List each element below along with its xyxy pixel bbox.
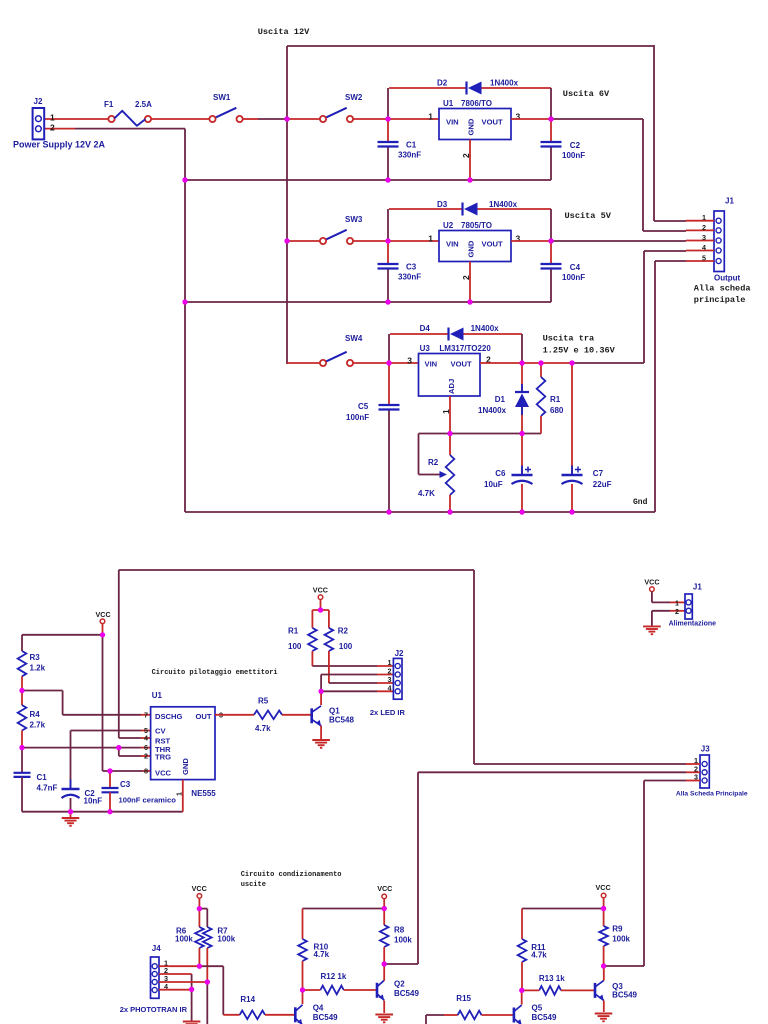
svg-text:R1: R1	[550, 395, 561, 404]
wire: R9 node to J3 riser	[604, 965, 644, 967]
junction dot VCC J4	[197, 906, 202, 911]
junction dot THR/TRG	[116, 745, 121, 750]
wire: R8 node to J3 riser	[384, 963, 418, 965]
resistor R11 4.7k	[521, 909, 523, 940]
svg-text:Uscita 12V: Uscita 12V	[258, 27, 310, 37]
svg-text:F1: F1	[104, 100, 114, 109]
wire: C1 to rail	[21, 777, 23, 812]
wire: RST drop	[118, 570, 120, 738]
svg-text:2: 2	[675, 607, 679, 616]
svg-text:4: 4	[702, 243, 706, 252]
junction dot R6 pin1	[197, 964, 202, 969]
svg-text:J1: J1	[693, 583, 702, 592]
svg-text:1N400x: 1N400x	[471, 324, 500, 333]
wire: OUT to R5	[215, 714, 254, 716]
wire: J4 pin3 row	[159, 981, 207, 983]
wire: TRG tie	[118, 748, 120, 756]
wire: 12V line down to J1 pin1	[653, 45, 655, 221]
wire: D2 loop	[387, 88, 389, 119]
resistor R1 100	[308, 628, 317, 651]
wire: U3 ADJ wire	[449, 396, 451, 434]
svg-text:VCC: VCC	[96, 610, 111, 619]
svg-text:100nF: 100nF	[562, 151, 585, 160]
junction dot SW4/D4 node	[386, 360, 391, 365]
connector J1 Output	[714, 211, 724, 272]
wire: Uscita 5V net to J1 pin3	[551, 240, 686, 242]
svg-text:2: 2	[461, 153, 471, 158]
wire: U2 pin2 GND wire	[469, 262, 471, 303]
resistor R6 100k	[198, 909, 200, 927]
svg-text:R2: R2	[338, 627, 349, 636]
svg-text:2x LED IR: 2x LED IR	[370, 708, 406, 717]
ground symbol Q1	[312, 739, 330, 741]
svg-text:22uF: 22uF	[593, 480, 612, 489]
regulator U3 LM317/TO220	[419, 354, 481, 397]
svg-text:1N400x: 1N400x	[490, 79, 519, 88]
svg-text:C1: C1	[406, 141, 417, 150]
svg-text:3: 3	[694, 773, 698, 782]
connector J4 2x PHOTOTRAN IR	[151, 957, 160, 998]
wire: VCC tee to R1 R2	[312, 609, 329, 611]
svg-text:VCC: VCC	[377, 884, 392, 893]
resistor R13 1k	[539, 986, 561, 995]
wire: SW4 to U3 VIN	[353, 362, 419, 364]
junction dot Q4 collector node	[300, 987, 305, 992]
svg-text:1: 1	[50, 112, 55, 122]
wire: D3 loop	[387, 209, 389, 241]
transistor Q4 BC549	[294, 1007, 297, 1022]
svg-text:R2: R2	[428, 458, 439, 467]
diode D4 1N400x	[447, 328, 449, 341]
junction dots U2 rail	[182, 299, 187, 304]
wire: R2 to J2 pin3	[328, 651, 330, 683]
fuse F1	[108, 116, 114, 122]
junction dot R9 bottom	[601, 963, 606, 968]
svg-text:7: 7	[144, 710, 148, 719]
junction dot R7 pin3	[205, 979, 210, 984]
ground symbol Q3	[595, 1013, 613, 1015]
wire: R15 feed	[425, 1015, 427, 1024]
wire: collector node down to Q1	[320, 691, 322, 705]
svg-text:SW3: SW3	[345, 215, 363, 224]
wire: U2 block ground rail	[185, 301, 551, 303]
wire: RST net long top line	[119, 569, 474, 571]
capacitor C6 10uF	[521, 434, 523, 475]
svg-text:1: 1	[428, 111, 433, 121]
wire: VCC to J1b pin1	[651, 592, 653, 603]
svg-text:4.7nF: 4.7nF	[37, 784, 58, 793]
svg-text:J2: J2	[34, 97, 43, 106]
svg-text:Circuito condizionamento: Circuito condizionamento	[241, 871, 342, 879]
wire: D4 loop	[388, 334, 390, 363]
svg-text:2: 2	[702, 223, 706, 232]
diode D3 1N400x	[461, 203, 463, 216]
svg-text:uscite: uscite	[241, 881, 266, 889]
svg-text:ADJ: ADJ	[447, 379, 456, 394]
wire: J2 pin4 to collector node	[377, 690, 393, 692]
svg-text:2x PHOTOTRAN IR: 2x PHOTOTRAN IR	[120, 1005, 188, 1014]
resistor R12 1k	[320, 986, 343, 995]
wire: SW1 to SW2 segment	[243, 118, 259, 120]
svg-text:R12 1k: R12 1k	[321, 972, 347, 981]
wire: SW4 feed from bus	[287, 362, 320, 364]
transistor Q2 BC549	[376, 983, 379, 998]
wire: R5 to Q1 base	[282, 714, 312, 716]
svg-text:VCC: VCC	[644, 577, 659, 586]
wire: VCC down to pin 8	[102, 635, 104, 771]
svg-text:R4: R4	[30, 710, 41, 719]
svg-text:C4: C4	[570, 263, 581, 272]
capacitor C1 330nF	[387, 119, 389, 142]
svg-text:R1: R1	[288, 627, 299, 636]
svg-text:J4: J4	[152, 944, 161, 953]
junction dots U3 VOUT row	[519, 360, 524, 365]
svg-text:100k: 100k	[217, 935, 235, 944]
wire: SW3 to U2 VIN	[353, 240, 439, 242]
wire: J2 pin2 to collector node	[377, 674, 393, 676]
svg-text:BC549: BC549	[612, 991, 637, 1000]
svg-text:Uscita tra: Uscita tra	[543, 334, 595, 344]
regulator U2 7805/TO	[439, 231, 511, 262]
svg-text:C1: C1	[37, 773, 48, 782]
transistor Q3 BC549	[594, 983, 597, 998]
wire: Q4 collector	[302, 990, 304, 1004]
svg-text:R3: R3	[30, 653, 41, 662]
svg-text:SW1: SW1	[213, 93, 231, 102]
connector J3 Alla Scheda Principale	[700, 755, 709, 788]
svg-text:C7: C7	[593, 469, 604, 478]
diode D1 1N400x	[521, 363, 523, 392]
svg-text:BC549: BC549	[313, 1013, 338, 1022]
svg-text:SW4: SW4	[345, 334, 363, 343]
svg-text:U2: U2	[443, 221, 454, 230]
svg-text:C3: C3	[120, 780, 131, 789]
svg-text:BC549: BC549	[532, 1013, 557, 1022]
junction dot Q5 collector node	[519, 988, 524, 993]
wire: R15 to Q5 base	[482, 1014, 514, 1016]
wire: fuse to SW1	[151, 118, 210, 120]
wire: VCC to divider	[22, 634, 103, 636]
svg-text:Q2: Q2	[394, 980, 405, 989]
svg-text:J2: J2	[395, 649, 404, 658]
junction dot VCC Q2 stage	[382, 906, 387, 911]
svg-text:D2: D2	[437, 79, 448, 88]
resistor R10 4.7k	[302, 909, 304, 940]
capacitor C1 4.7nF	[14, 772, 31, 774]
svg-text:VOUT: VOUT	[451, 360, 472, 369]
svg-text:GND: GND	[467, 118, 476, 135]
svg-text:2.7k: 2.7k	[30, 721, 46, 730]
wire: THR node to C1	[21, 748, 23, 773]
wire: R12 ends	[303, 989, 321, 991]
junction dot Q1 collector node	[319, 689, 324, 694]
wire: R4 to THR node	[21, 731, 23, 748]
wire: THR net	[22, 747, 119, 749]
connector J2	[33, 108, 45, 139]
IC U1 NE555	[151, 707, 215, 780]
connector J2 2x LED IR	[393, 658, 402, 699]
svg-text:1.2k: 1.2k	[30, 664, 46, 673]
switch SW4	[320, 360, 326, 366]
svg-text:GND: GND	[181, 758, 190, 775]
svg-text:VOUT: VOUT	[482, 118, 503, 127]
wire: R3-R4 junction	[21, 676, 23, 705]
svg-text:C6: C6	[495, 469, 506, 478]
svg-text:4: 4	[144, 734, 148, 743]
wire: Q3 collector	[603, 966, 605, 981]
svg-text:VCC: VCC	[313, 585, 328, 594]
resistor R3 1.2k	[18, 651, 27, 676]
svg-text:100k: 100k	[394, 936, 412, 945]
svg-text:U1: U1	[443, 99, 454, 108]
svg-text:GND: GND	[467, 240, 476, 257]
svg-text:VCC: VCC	[192, 884, 207, 893]
svg-text:VIN: VIN	[425, 360, 438, 369]
switch SW2	[320, 116, 326, 122]
svg-text:330nF: 330nF	[398, 273, 421, 282]
svg-text:R5: R5	[258, 697, 269, 706]
svg-text:7806/TO: 7806/TO	[461, 99, 492, 108]
transistor Q5 BC549	[513, 1008, 516, 1023]
svg-text:10uF: 10uF	[484, 480, 503, 489]
wire: GND vertical from J2 pin 2	[184, 129, 186, 512]
svg-text:100: 100	[288, 642, 302, 651]
svg-text:R15: R15	[456, 994, 471, 1003]
svg-text:Circuito pilotaggio emettitori: Circuito pilotaggio emettitori	[152, 669, 278, 677]
wire: Q2 collector	[383, 964, 385, 981]
svg-text:Q5: Q5	[532, 1004, 543, 1013]
ground symbol 555	[70, 812, 72, 818]
junction dot R8 bottom	[382, 961, 387, 966]
svg-text:VIN: VIN	[446, 118, 459, 127]
svg-text:100: 100	[339, 642, 353, 651]
svg-text:Uscita 6V: Uscita 6V	[563, 89, 610, 99]
svg-text:CV: CV	[155, 727, 166, 736]
svg-text:Output: Output	[714, 274, 741, 283]
wire: VCC crossbar Q2 stage	[303, 908, 385, 910]
svg-text:TRG: TRG	[155, 753, 171, 762]
junction dots bottom rail	[386, 509, 391, 514]
wire: 555 ground rail	[22, 811, 183, 813]
wire: ADJ node row	[419, 433, 542, 435]
capacitor C4 100nF	[550, 241, 552, 264]
resistor R15	[458, 1011, 482, 1020]
svg-text:Gnd: Gnd	[633, 498, 648, 507]
svg-text:2.5A: 2.5A	[135, 100, 152, 109]
wire: U1 pin2 GND wire	[469, 140, 471, 181]
wire: Uscita tra net to J1 pin4	[643, 251, 645, 363]
wire: divider vertical top	[21, 635, 23, 651]
wire: J1b pin2 to ground	[670, 610, 685, 612]
svg-text:Uscita 5V: Uscita 5V	[565, 211, 612, 221]
svg-text:D1: D1	[495, 395, 506, 404]
svg-text:VOUT: VOUT	[482, 240, 503, 249]
resistor R5 4.7k	[254, 711, 282, 720]
wire: J4 pin2 tie	[159, 973, 192, 975]
wire: Q3 collector net to J3 pin3	[643, 781, 645, 967]
junction dot VCC 555	[100, 632, 105, 637]
svg-text:2: 2	[461, 275, 471, 280]
wire: Q2 collector net to J3 pin2	[417, 772, 419, 964]
svg-text:Alimentazione: Alimentazione	[669, 620, 717, 627]
wire: U3 VOUT row	[480, 362, 572, 364]
capacitor C2 10nF	[70, 731, 72, 790]
junction dot J4 pin2/pin4	[189, 987, 194, 992]
wire: J4 pin1 row to R14	[170, 965, 199, 967]
wire: Q2 emitter to ground	[383, 1001, 385, 1014]
junction dots U1 rail	[182, 177, 187, 182]
junction dot overlay	[284, 116, 289, 121]
resistor R14	[240, 1011, 265, 1020]
svg-text:4.7k: 4.7k	[314, 950, 330, 959]
svg-text:R9: R9	[612, 925, 623, 934]
wire: bottom ground rail	[185, 511, 655, 513]
wire: R14 to Q4 base	[265, 1014, 295, 1016]
svg-text:BC548: BC548	[329, 716, 354, 725]
svg-text:1: 1	[441, 409, 451, 414]
svg-text:100k: 100k	[612, 935, 630, 944]
transistor Q1 BC548	[310, 708, 313, 723]
wire: R7 line down	[206, 982, 208, 1024]
svg-text:C5: C5	[358, 402, 369, 411]
diode D2 1N400x	[465, 82, 467, 95]
svg-text:C2: C2	[570, 141, 581, 150]
resistor R7 100k	[203, 927, 212, 948]
wire: R13 ends	[522, 989, 539, 991]
capacitor C3 100nF ceramico	[109, 771, 111, 788]
svg-text:100nF: 100nF	[346, 413, 369, 422]
svg-text:7805/TO: 7805/TO	[461, 221, 492, 230]
regulator U1 7806/TO	[439, 109, 511, 140]
capacitor C5 100nF	[388, 363, 390, 405]
svg-text:DSCHG: DSCHG	[155, 712, 183, 721]
svg-text:U1: U1	[152, 691, 163, 700]
svg-text:NE555: NE555	[191, 789, 216, 798]
switch SW3	[320, 238, 326, 244]
svg-text:1N400x: 1N400x	[489, 200, 518, 209]
svg-text:330nF: 330nF	[398, 151, 421, 160]
svg-text:J1: J1	[725, 197, 734, 206]
svg-text:VCC: VCC	[155, 769, 172, 778]
resistor R8 100k	[383, 909, 385, 926]
svg-text:10nF: 10nF	[84, 797, 103, 806]
junction dots row 119	[284, 116, 289, 121]
wire: CV net	[71, 730, 142, 732]
svg-text:C3: C3	[406, 263, 417, 272]
junction dot VCC Q3 stage	[601, 906, 606, 911]
svg-text:3: 3	[702, 233, 706, 242]
junction dots ADJ row	[447, 431, 452, 436]
wire: SW2 to U1 VIN	[353, 118, 439, 120]
connector J1 Alimentazione	[685, 594, 692, 619]
wire: main 12V bus vertical	[286, 46, 288, 364]
svg-text:Alla scheda: Alla scheda	[694, 284, 751, 294]
wire: Uscita 12V top line	[287, 45, 654, 47]
capacitor C7 22uF	[571, 363, 573, 474]
capacitor C2 100nF	[550, 119, 552, 142]
wire: Q5 collector	[521, 990, 523, 1004]
svg-text:R8: R8	[394, 926, 405, 935]
svg-text:5: 5	[702, 253, 706, 262]
wire: U1 pin3 VOUT stub	[511, 118, 551, 120]
resistor R9 100k	[603, 909, 605, 927]
svg-text:Alla Scheda Principale: Alla Scheda Principale	[676, 791, 748, 798]
svg-text:680: 680	[550, 406, 564, 415]
capacitor C3 330nF	[387, 241, 389, 264]
svg-text:4.7K: 4.7K	[418, 489, 435, 498]
wire: Q3 emitter to ground	[603, 1001, 605, 1013]
wire: J4 pin4 row	[159, 989, 192, 991]
svg-text:R14: R14	[240, 995, 255, 1004]
svg-text:1: 1	[175, 792, 184, 796]
wire: R1 to J2 pin1	[311, 651, 313, 666]
svg-text:SW2: SW2	[345, 93, 363, 102]
svg-text:4: 4	[388, 684, 392, 693]
svg-text:U3: U3	[420, 344, 431, 353]
svg-text:Power Supply 12V 2A: Power Supply 12V 2A	[13, 140, 106, 150]
resistor R4 2.7k	[18, 705, 27, 730]
svg-text:R13 1k: R13 1k	[539, 974, 565, 983]
wire: Uscita 6V net to J1 pin2	[551, 118, 643, 120]
wire: VCC to R7	[199, 908, 207, 910]
svg-text:2: 2	[144, 752, 148, 761]
svg-text:J3: J3	[701, 745, 710, 754]
svg-text:D4: D4	[420, 324, 431, 333]
svg-text:VCC: VCC	[596, 883, 611, 892]
ground symbol J1 alimentazione	[643, 625, 661, 627]
svg-text:VIN: VIN	[446, 240, 459, 249]
wire: ground rail up to J1 pin5	[654, 261, 656, 512]
svg-text:100k: 100k	[175, 935, 193, 944]
wire: VCC crossbar Q3 stage	[522, 908, 604, 910]
svg-text:4.7k: 4.7k	[255, 724, 271, 733]
junction dot VCC R1R2	[318, 607, 323, 612]
wire: SW3 feed from bus	[287, 240, 320, 242]
svg-text:BC549: BC549	[394, 989, 419, 998]
wire: DSCHG net	[22, 690, 63, 692]
svg-text:principale: principale	[694, 295, 746, 305]
resistor R2 100	[325, 628, 334, 651]
svg-text:Q1: Q1	[329, 707, 340, 716]
svg-text:100nF: 100nF	[562, 273, 585, 282]
switch SW1	[209, 116, 215, 122]
ground symbol Q2	[375, 1014, 393, 1016]
ground symbol J4	[183, 1021, 201, 1023]
svg-text:4.7k: 4.7k	[531, 951, 547, 960]
trimmer R2 4.7K	[418, 434, 420, 475]
svg-text:1: 1	[428, 233, 433, 243]
svg-text:1N400x: 1N400x	[478, 406, 507, 415]
svg-text:2: 2	[50, 123, 55, 133]
svg-text:3: 3	[407, 355, 412, 365]
wire: J2 pin2 row	[44, 128, 75, 130]
wire: U1 block ground rail	[185, 179, 551, 181]
wire: U2 pin3 VOUT stub	[511, 240, 551, 242]
wire: input row J2 to fuse	[44, 118, 109, 120]
resistor R1 680	[540, 363, 542, 377]
wire: 555 GND pin 1	[182, 780, 184, 812]
junction dots row 241	[284, 238, 289, 243]
svg-text:LM317/TO220: LM317/TO220	[439, 344, 491, 353]
svg-text:OUT: OUT	[195, 712, 211, 721]
svg-text:100nF ceramico: 100nF ceramico	[119, 796, 177, 805]
svg-text:1.25V e 10.36V: 1.25V e 10.36V	[543, 345, 616, 355]
wire: J4 tie to ground	[191, 989, 193, 1021]
svg-text:Q4: Q4	[313, 1004, 324, 1013]
svg-text:D3: D3	[437, 200, 448, 209]
svg-text:8: 8	[144, 767, 148, 776]
svg-text:1: 1	[702, 213, 706, 222]
